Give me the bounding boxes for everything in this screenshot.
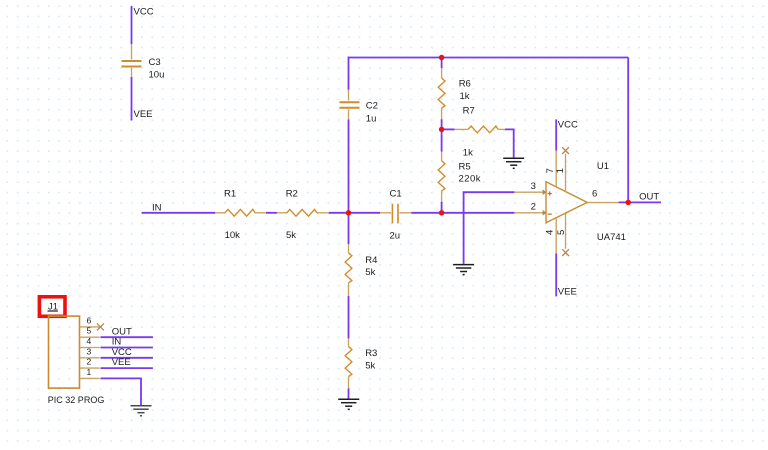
junction node OUT — [625, 200, 631, 206]
wire R3 to ground — [348, 388, 350, 399]
resistor R7 — [455, 126, 506, 133]
pin 5 (no connect) — [565, 214, 567, 249]
svg-text:VEE: VEE — [558, 286, 577, 297]
svg-text:5: 5 — [87, 326, 92, 336]
pin 7 (V+) — [555, 151, 557, 188]
wire IN to R1 — [142, 212, 216, 214]
svg-text:3: 3 — [87, 346, 92, 356]
svg-text:3: 3 — [531, 181, 536, 192]
svg-text:5k: 5k — [365, 360, 375, 371]
no-connect X pin1 — [562, 147, 569, 154]
svg-text:R6: R6 — [459, 79, 471, 90]
plus mark — [548, 191, 552, 214]
svg-text:IN: IN — [152, 202, 162, 213]
svg-text:1k: 1k — [463, 148, 473, 159]
ground (pin3) — [453, 265, 474, 275]
wire R5 to node B — [441, 202, 443, 213]
wire R2 to node A — [329, 212, 381, 214]
resistor R3 — [345, 338, 352, 388]
wire pin4 IN — [101, 347, 153, 349]
pin 1 stub — [80, 377, 100, 379]
wire R1 to R2 — [266, 212, 277, 214]
svg-text:4: 4 — [545, 230, 556, 235]
svg-text:2: 2 — [87, 357, 92, 367]
capacitor C2 — [340, 90, 360, 120]
wire node A down to R4 — [348, 213, 350, 244]
svg-text:R1: R1 — [224, 189, 236, 200]
svg-text:10k: 10k — [225, 230, 241, 241]
pin 2 arrowhead — [543, 210, 547, 216]
pin 2 stub — [80, 367, 100, 369]
pin 6 lead — [587, 202, 618, 204]
wire top rail to C2 — [348, 57, 350, 90]
pin 5 stub — [80, 336, 100, 338]
svg-text:C1: C1 — [390, 188, 402, 199]
resistor R4 — [345, 244, 352, 296]
wire top rail — [349, 57, 629, 59]
svg-text:2u: 2u — [390, 230, 401, 241]
wire pin5 OUT — [101, 336, 153, 338]
wire pin4 to VEE — [555, 254, 557, 297]
svg-text:VCC: VCC — [134, 7, 154, 18]
svg-text:C3: C3 — [149, 57, 161, 68]
svg-text:PIC 32 PROG: PIC 32 PROG — [48, 395, 105, 405]
svg-text:10u: 10u — [149, 70, 165, 81]
svg-text:UA741: UA741 — [597, 232, 626, 243]
resistor R2 — [277, 209, 328, 216]
no-connect X pin6 — [97, 323, 104, 330]
wire R4 to R3 — [348, 296, 350, 338]
pin 4 (V-) — [555, 218, 557, 254]
wire rail to R6 — [441, 58, 443, 69]
wire C1 to node B — [411, 212, 514, 214]
pin 3 arrowhead — [543, 189, 547, 195]
pin 6 stub — [80, 326, 100, 328]
wire node C to R7 — [442, 128, 455, 130]
svg-text:5k: 5k — [286, 230, 296, 241]
junction node B — [439, 210, 445, 216]
svg-text:5: 5 — [556, 230, 567, 235]
svg-text:1: 1 — [87, 367, 92, 377]
svg-text:R4: R4 — [365, 255, 377, 266]
resistor R6 — [438, 68, 445, 119]
wire feedback vertical — [627, 58, 629, 203]
svg-text:6: 6 — [592, 188, 597, 199]
svg-text:5k: 5k — [365, 267, 375, 278]
connector J1 body — [49, 316, 80, 388]
wire pin6 to OUT — [619, 201, 661, 203]
ground (R3) — [338, 399, 359, 409]
resistor R1 — [215, 209, 266, 216]
wire C2 to node A — [348, 120, 350, 213]
svg-text:2: 2 — [531, 202, 536, 213]
junction node A — [346, 210, 352, 216]
svg-text:OUT: OUT — [639, 192, 659, 203]
svg-text:VEE: VEE — [112, 357, 131, 368]
pin 3 lead — [514, 191, 543, 193]
pin 4 stub — [80, 347, 100, 349]
wire pin2 VEE — [101, 367, 153, 369]
wire R7 to ground — [505, 129, 514, 158]
wire VCC to C3 — [131, 6, 133, 44]
selection box around J1 label — [39, 297, 65, 317]
svg-text:VCC: VCC — [558, 120, 578, 131]
svg-text:1k: 1k — [460, 91, 470, 102]
pin 3 stub — [80, 357, 100, 359]
pin 1 (no connect) — [565, 154, 567, 192]
wire VCC to pin7 — [555, 119, 557, 150]
pin 2 lead — [514, 212, 543, 214]
svg-text:U1: U1 — [597, 161, 609, 172]
wire node C to R5 — [441, 129, 443, 151]
svg-text:R2: R2 — [286, 188, 298, 199]
wire C3 to VEE — [131, 77, 133, 121]
junction top rail / R6 — [439, 55, 445, 61]
junction node C — [439, 127, 445, 133]
svg-text:1u: 1u — [366, 114, 377, 125]
svg-text:220k: 220k — [459, 174, 481, 185]
no-connect X pin5 — [562, 249, 569, 256]
wire pin1 to ground — [101, 378, 142, 405]
ground (R7) — [503, 158, 524, 168]
svg-text:1: 1 — [555, 168, 566, 173]
wire pin3 to ground — [464, 192, 515, 264]
svg-text:6: 6 — [87, 315, 92, 325]
svg-text:R3: R3 — [365, 348, 377, 359]
capacitor C3 — [131, 44, 133, 77]
op-amp U1 triangle — [546, 182, 587, 223]
svg-text:VEE: VEE — [134, 109, 153, 120]
wire R6 to node C — [441, 119, 443, 129]
svg-text:4: 4 — [87, 336, 92, 346]
capacitor C1 — [380, 204, 411, 224]
wire pin3 VCC — [101, 357, 153, 359]
svg-text:C2: C2 — [366, 101, 378, 112]
resistor R5 — [438, 152, 445, 202]
refdes underline — [48, 310, 58, 312]
svg-text:R7: R7 — [463, 106, 475, 117]
ground (J1) — [131, 406, 152, 416]
svg-text:R5: R5 — [459, 162, 471, 173]
